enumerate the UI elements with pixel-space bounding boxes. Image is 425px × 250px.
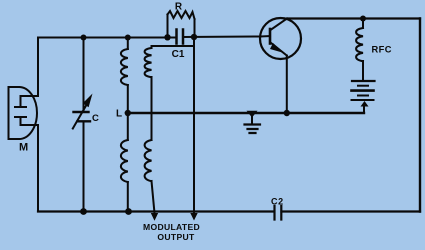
inductor RFC winding bbox=[356, 28, 363, 61]
transistor Q1 collector lead bbox=[271, 19, 288, 31]
variable capacitor C arrow shaft bbox=[73, 101, 89, 129]
node dot var cap top bbox=[81, 35, 87, 41]
svg-text:M: M bbox=[19, 142, 28, 154]
wire left rail lower bbox=[37, 125, 39, 212]
wire left rail upper bbox=[37, 38, 39, 97]
inductor secondary lower winding bbox=[145, 140, 152, 181]
variable capacitor C plates bbox=[74, 112, 91, 121]
microphone M lower electrode bbox=[15, 117, 38, 125]
wire top horizontal bbox=[38, 37, 176, 39]
svg-text:OUTPUT: OUTPUT bbox=[157, 232, 195, 242]
svg-text:RFC: RFC bbox=[372, 45, 392, 55]
wire bottom horizontal left bbox=[38, 210, 274, 212]
node L tap bbox=[125, 110, 131, 116]
capacitor C2 plates bbox=[275, 206, 282, 220]
transistor Q1 emitter lead bbox=[271, 43, 287, 56]
node dot coil L top bbox=[125, 35, 131, 41]
inductor L upper winding bbox=[121, 49, 128, 85]
output arrow left bbox=[151, 213, 158, 221]
node dot bottom coil bbox=[125, 208, 132, 215]
wire emitter vertical bbox=[286, 56, 288, 114]
node dot bottom var cap bbox=[80, 208, 87, 215]
ground stub bbox=[251, 114, 253, 124]
transistor Q1 base lead bbox=[261, 35, 271, 38]
svg-text:C: C bbox=[92, 113, 99, 124]
capacitor C1 plates bbox=[177, 30, 184, 44]
resistor R zigzag bbox=[168, 11, 195, 19]
svg-text:MODULATED: MODULATED bbox=[143, 222, 200, 232]
wire secondary winding top stub bbox=[152, 45, 195, 47]
inductor secondary upper winding bbox=[145, 48, 152, 77]
node dot R/C1 right bbox=[191, 34, 197, 40]
transistor Q1 base bar bbox=[269, 29, 272, 44]
ground junction triangle bbox=[247, 111, 258, 118]
node dot emitter junction bbox=[284, 110, 290, 116]
battery B plates bbox=[352, 80, 375, 82]
wire battery bottom return bbox=[363, 106, 365, 113]
wire variable capacitor branch lower bbox=[83, 123, 85, 212]
microphone M upper electrode bbox=[15, 96, 38, 107]
svg-text:L: L bbox=[116, 109, 122, 120]
resistor R left stub bbox=[167, 15, 169, 38]
wire secondary winding verticals bbox=[152, 46, 155, 212]
ground bars bbox=[245, 125, 261, 134]
node dot RFC top bbox=[360, 16, 366, 22]
wire variable capacitor branch upper bbox=[83, 38, 85, 112]
wire RFC branch bbox=[362, 19, 364, 81]
microphone M bracket bbox=[9, 87, 20, 139]
wire top horizontal right of C1 bbox=[183, 36, 261, 39]
wire bottom horizontal right bbox=[282, 210, 421, 212]
wire tickler vertical from C1 right node bbox=[193, 37, 195, 212]
transistor Q1 circle bbox=[260, 18, 301, 59]
svg-text:R: R bbox=[175, 2, 183, 13]
transistor Q1 emitter arrowhead bbox=[270, 43, 284, 53]
microphone M housing arc bbox=[19, 87, 37, 139]
wire coil L branch verticals bbox=[127, 38, 129, 212]
wire middle horizontal (emitter/ground bus) bbox=[128, 112, 365, 114]
resistor R right stub bbox=[194, 19, 196, 37]
output arrow right bbox=[190, 213, 197, 221]
inductor L lower winding bbox=[121, 140, 128, 182]
node dot R/C1 left bbox=[164, 34, 170, 40]
svg-text:C1: C1 bbox=[172, 49, 185, 60]
wire collector rail bbox=[287, 17, 420, 19]
wire right rail bbox=[419, 19, 421, 212]
svg-text:C2: C2 bbox=[271, 197, 284, 207]
battery tap arrowhead bbox=[361, 101, 369, 107]
variable capacitor C arrowhead bbox=[83, 94, 93, 108]
